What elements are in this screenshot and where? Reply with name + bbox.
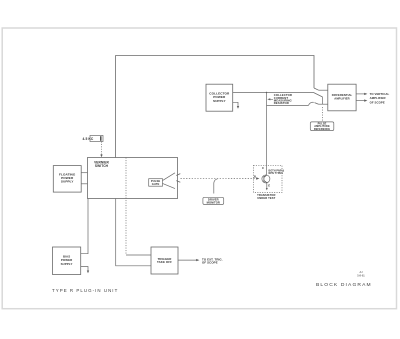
label PULSE AMPLITUDE REFERENCE [310,122,334,131]
block trigger take off [151,247,178,274]
wire amp output lower [356,100,364,102]
wire dashed to reference [321,107,323,122]
label TO VERTICAL AMPLIFIER OF SCOPE [370,92,390,104]
svg-text:TYPE R PLUG-IN UNIT: TYPE R PLUG-IN UNIT [52,288,118,293]
svg-text:TAKE OFF: TAKE OFF [157,260,172,264]
wire dashed vernier linkage vertical [125,158,127,256]
label drawing note [357,270,365,278]
svg-text:DIFFERENTIAL: DIFFERENTIAL [332,93,353,97]
svg-text:UNDER TEST: UNDER TEST [257,196,275,200]
wire floating supply upper stub [81,172,87,174]
block collector power supply [206,84,233,111]
wire floating supply lower stub [81,183,87,185]
wire amp output upper [356,93,364,95]
wire upper amp input [319,89,328,91]
oscillator 4.5 KC [90,136,103,142]
wire dashed drive line to transistor base [181,178,257,180]
wire collector line to transistor [266,93,268,175]
svg-text:4.5 KC: 4.5 KC [83,137,94,141]
wire bias supply ground stub [81,267,88,272]
svg-text:C: C [262,166,264,170]
block vernier switch unit (large enclosure) [88,158,178,199]
svg-text:B: B [254,174,256,178]
label TRANSISTOR UNDER TEST [257,193,276,200]
block pulse gate [149,179,163,187]
block bias power supply [53,247,81,275]
wire to bias supply [81,199,88,254]
svg-text:MONITOR: MONITOR [207,201,220,205]
block floating power supply [53,166,81,193]
svg-text:5-8-61: 5-8-61 [357,274,365,278]
wire lower amp input [319,103,328,105]
label DRIVER MONITOR [203,197,224,204]
wire vernier unit to trigger takeoff (solid) [116,199,151,266]
label COLLECTOR CURRENT MEASURING RESISTOR [274,93,292,105]
wire supply sense to lower input [314,93,323,105]
svg-text:BLOCK DIAGRAM: BLOCK DIAGRAM [316,282,372,288]
switch pulse gate output (SPDT) [163,173,176,181]
wire emitter [266,183,268,189]
label polarity note [269,169,285,175]
svg-text:E: E [268,184,270,188]
wire resistor tap to switch [267,104,309,106]
wire dashed vernier drive to switch [101,142,103,156]
svg-text:OF SCOPE: OF SCOPE [370,100,385,104]
wire vernier linkage to trigger takeoff [126,254,151,256]
label VERNIER SWITCH [94,161,109,168]
svg-text:GATE: GATE [152,182,160,186]
wire collector supply to switch [233,92,314,94]
svg-text:RESISTOR: RESISTOR [274,101,289,105]
transistor under test (dashed fixture) [254,165,283,192]
switch lower amplifier input [309,102,314,105]
wire collector supply ground stub [233,102,238,106]
switch driver monitor pickoff [214,179,218,194]
svg-text:NPN TYPES: NPN TYPES [269,172,284,175]
transistor Q1 [262,175,270,183]
label TO EXT. TRIG. OF SCOPE [202,257,223,264]
svg-text:AMPLIFIER: AMPLIFIER [334,97,349,101]
svg-text:AJ: AJ [359,270,363,274]
switch upper amplifier input [314,88,319,90]
svg-text:REFERENCE: REFERENCE [314,128,331,131]
wire top feedback loop [116,56,314,158]
svg-text:SWITCH: SWITCH [95,164,109,168]
svg-text:SUPPLY: SUPPLY [213,99,227,103]
block differential amplifier [328,84,356,111]
wire trigger output [178,259,197,261]
svg-text:OF SCOPE: OF SCOPE [202,261,218,265]
svg-text:SUPPLY: SUPPLY [61,262,73,266]
svg-text:SUPPLY: SUPPLY [61,180,75,184]
